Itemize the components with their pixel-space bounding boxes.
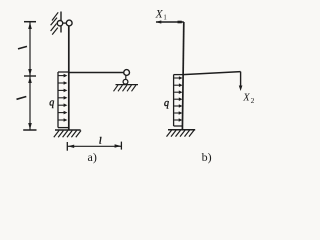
svg-text:l: l	[99, 135, 102, 145]
svg-text:2: 2	[251, 96, 255, 105]
svg-text:q: q	[49, 97, 54, 108]
svg-text:q: q	[164, 98, 169, 109]
svg-text:X: X	[155, 8, 164, 20]
svg-text:1: 1	[163, 15, 166, 22]
svg-text:a): a)	[88, 150, 97, 164]
svg-text:X: X	[242, 92, 250, 103]
svg-text:b): b)	[202, 150, 212, 164]
